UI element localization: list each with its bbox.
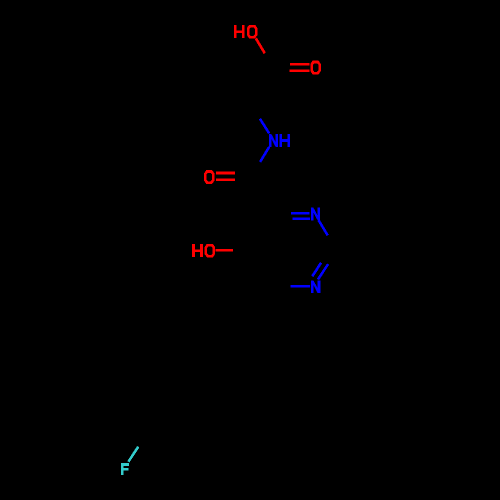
bond C2=N1 double line 1 blue half <box>312 263 321 277</box>
wire bond Ccarboxyl-Calpha <box>251 66 273 104</box>
bond Camide=O double line 1 <box>216 172 235 175</box>
benzene ring C2'-C3' <box>200 413 241 449</box>
atom label NH letter N <box>269 134 278 147</box>
wire bond C6-CH2 <box>252 287 273 323</box>
wire bond C carboxyl=O black half <box>272 66 290 68</box>
atom label O (carboxyl carbonyl) <box>310 61 321 75</box>
atom label HO (carboxylic acid) letter H <box>234 25 245 38</box>
benzene ring C3'-C4' <box>148 432 200 450</box>
wire bond Camide-C4 <box>252 181 273 215</box>
wire bond C5-C4 <box>252 214 273 251</box>
wire bond C6-C5 <box>252 251 274 288</box>
atom label N1 of pyrimidine <box>311 280 320 293</box>
bond F-C4' teal half <box>128 447 138 462</box>
wire bond N3-C2 black half <box>328 235 337 250</box>
benzene ring C5'-C6' <box>138 342 179 378</box>
bond C4=N3 double line 2 blue half <box>293 217 310 220</box>
wire bond N-Camide black half <box>252 162 261 181</box>
wire bond O(H)-C carboxyl black half <box>265 53 272 66</box>
wire bond CH2-C1' <box>230 323 251 359</box>
benzene ring C4'-C5' <box>138 378 149 432</box>
atom label NH letter H <box>279 134 290 147</box>
bond HO-Ccarboxyl red half <box>256 38 265 53</box>
benzene ring C6'-C1' <box>179 342 231 360</box>
benzene ring C1'-C2' <box>230 360 241 414</box>
bond C4=N3 double line 1 blue half <box>291 212 310 215</box>
visible colored bond segments <box>128 38 328 461</box>
wire bond C4'-F black half <box>138 432 148 447</box>
bond Ccarboxyl=O double line 2 <box>290 70 310 73</box>
carbon skeleton (black, invisible on black background) <box>138 53 337 449</box>
wire bond N1-C6 black half <box>273 285 290 288</box>
bond NH-Camide blue half <box>260 147 269 162</box>
bond Ccarboxyl=O double line 1 <box>290 63 310 66</box>
wire bond Camide=O black half <box>235 176 252 180</box>
wire bond Calpha-N black half <box>251 104 260 119</box>
bond N3-C2 blue half <box>319 220 328 235</box>
atom label F (fluorine) <box>121 463 129 475</box>
bond N1-C6 blue half <box>291 285 311 288</box>
bond Camide=O double line 2 <box>216 178 235 181</box>
atom label O (amide carbonyl) <box>204 170 215 184</box>
wire bond C5-O black half <box>233 249 252 252</box>
atom label HO (phenol on ring) letter H <box>192 244 203 257</box>
bond C2=N1 double line 2 blue half <box>318 264 328 279</box>
bond Calpha-NH blue half <box>260 119 269 134</box>
wire bond C4=N3 black half <box>273 212 291 215</box>
wire bond C2=N1 black half <box>328 250 336 264</box>
atom label N3 of pyrimidine <box>311 208 320 221</box>
atom label HO (carboxylic acid) letter O <box>247 25 258 39</box>
atom label HO (phenol on ring) letter O <box>205 244 216 258</box>
bond C5-OH red half <box>216 249 234 252</box>
